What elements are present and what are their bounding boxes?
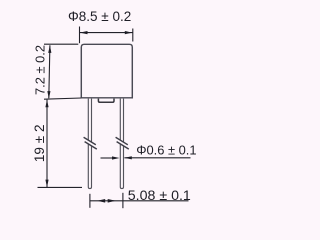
svg-text:19 ± 2: 19 ± 2 <box>32 124 47 162</box>
svg-text:Φ0.6 ± 0.1: Φ0.6 ± 0.1 <box>136 142 196 157</box>
svg-text:5.08 ± 0.1: 5.08 ± 0.1 <box>128 188 191 204</box>
svg-text:7.2 ± 0.2: 7.2 ± 0.2 <box>33 45 48 95</box>
svg-text:Φ8.5 ± 0.2: Φ8.5 ± 0.2 <box>68 9 131 24</box>
